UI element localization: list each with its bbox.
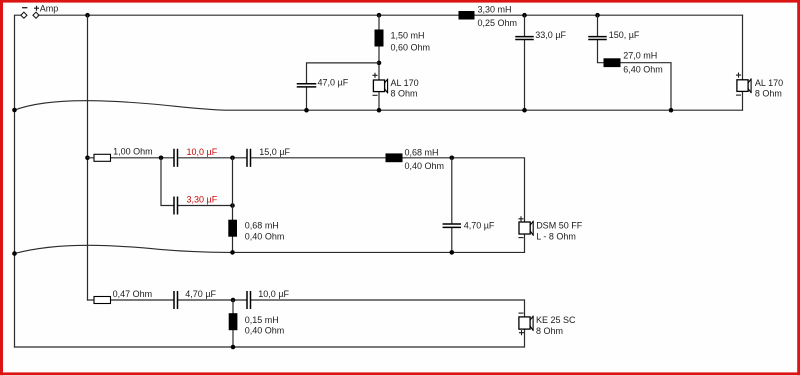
wire: 1.5mH branch vertical — [378, 15, 380, 110]
capacitor C8 4,70 uF — [174, 292, 178, 309]
wire: tweeter main row y=300 — [15, 300, 525, 347]
node: return rail / 47uF — [304, 108, 309, 113]
wire: top rail (+ feed, y=15.2) — [38, 14, 742, 16]
node: return rail / 27mH — [669, 108, 674, 113]
speaker AL 170 (woofer 1) symbol — [373, 80, 384, 92]
svg-text:33,0 µF: 33,0 µF — [535, 30, 566, 40]
node: after R1 — [159, 156, 164, 161]
svg-text:1,00 Ohm: 1,00 Ohm — [113, 147, 153, 157]
capacitor C6 15,0 uF — [247, 150, 251, 167]
wire: 47uF branch horizontal+vertical — [307, 63, 380, 110]
svg-text:DSM 50 FF: DSM 50 FF — [536, 220, 583, 230]
speaker KE 25 SC plus mark — [520, 331, 524, 335]
speaker AL 170 (woofer 2) minus mark — [737, 94, 741, 96]
capacitor C1 47,0 uF — [298, 84, 316, 87]
svg-text:10,0 µF: 10,0 µF — [258, 289, 289, 299]
label minus sign — [23, 7, 27, 9]
inductor L1 1,50 mH — [375, 30, 384, 47]
wire: parallel branch to 3,30uF — [161, 158, 233, 206]
svg-text:1,50 mH: 1,50 mH — [391, 31, 425, 41]
svg-text:4,70 µF: 4,70 µF — [464, 220, 495, 230]
speaker KE 25 SC symbol — [519, 317, 530, 329]
svg-text:L - 8 Ohm: L - 8 Ohm — [536, 231, 576, 241]
terminal minus (diamond) — [21, 12, 27, 18]
node: return rail / AL170 woofer1 — [377, 108, 382, 113]
wire: top rail right end down to woofer 2 — [742, 15, 744, 110]
node: return rail left end — [12, 108, 17, 113]
svg-text:0,15 mH: 0,15 mH — [245, 315, 279, 325]
wire: tweeter shunt inductor branch — [232, 300, 234, 347]
svg-text:0,25 Ohm: 0,25 Ohm — [478, 18, 518, 28]
node: top rail / 1.5mH branch — [377, 13, 382, 18]
svg-text:6,40 Ohm: 6,40 Ohm — [623, 65, 663, 75]
capacitor C5 3,30 uF — [174, 197, 178, 214]
inductor L2 3,30 mH (inline on top rail) — [459, 11, 475, 20]
wire: main feed drop x=87.5 from top rail to low-pass row — [87, 15, 89, 300]
inductor L6 0,15 mH — [229, 313, 238, 330]
wire: 33uF branch vertical — [524, 15, 526, 110]
node: mid return / shunt inductor — [230, 250, 235, 255]
speaker DSM 50 FF symbol — [519, 222, 530, 234]
node: tweeter row / shunt inductor — [231, 298, 236, 303]
resistor R1 1,00 Ohm — [94, 154, 111, 161]
node: junction 47uF branch / speaker — [377, 61, 382, 66]
svg-text:3,30 mH: 3,30 mH — [478, 5, 512, 15]
capacitor C9 10,0 uF — [247, 292, 251, 309]
wire: left return wire (vertical, from minus terminal to bottom-left corner) — [15, 15, 22, 347]
speaker AL 170 (woofer 1) minus mark — [373, 94, 377, 96]
svg-text:0,60 Ohm: 0,60 Ohm — [391, 43, 431, 53]
speaker AL 170 (woofer 2) symbol — [737, 80, 748, 92]
speaker DSM 50 FF minus mark — [519, 237, 523, 239]
svg-text:0,47 Ohm: 0,47 Ohm — [113, 289, 153, 299]
capacitor C7 4,70 uF — [443, 224, 460, 227]
svg-text:10,0 µF: 10,0 µF — [187, 147, 218, 157]
svg-text:150, µF: 150, µF — [609, 30, 640, 40]
node: mid return rail left end — [12, 251, 17, 256]
border frame (red) — [0, 0, 800, 3]
svg-text:0,68 mH: 0,68 mH — [245, 220, 279, 230]
label plus sign — [35, 6, 39, 10]
capacitor C2 33,0 uF — [516, 37, 533, 40]
node: junction top rail / feed drop — [85, 13, 90, 18]
svg-text:8 Ohm: 8 Ohm — [755, 89, 782, 99]
svg-text:Amp: Amp — [40, 4, 59, 14]
terminal plus (diamond) — [33, 12, 39, 18]
svg-text:8 Ohm: 8 Ohm — [536, 326, 563, 336]
svg-text:AL 170: AL 170 — [755, 78, 783, 88]
resistor R2 0,47 Ohm — [94, 297, 111, 304]
node: parallel caps lower junction — [230, 203, 235, 208]
node: midrange row / 4.7uF shunt — [450, 156, 455, 161]
node: top rail / 33uF branch — [522, 13, 527, 18]
wire: top section return rail (slightly wavy) — [15, 101, 743, 111]
svg-text:4,70 µF: 4,70 µF — [185, 289, 216, 299]
speaker AL 170 (woofer 2) plus mark — [737, 73, 741, 77]
svg-text:KE 25 SC: KE 25 SC — [536, 315, 576, 325]
wire: 4.7uF shunt branch — [451, 158, 453, 253]
inductor L5 0,68 mH (series) — [386, 153, 403, 162]
svg-text:0,40 Ohm: 0,40 Ohm — [405, 161, 445, 171]
svg-text:47,0 µF: 47,0 µF — [318, 78, 349, 88]
capacitor C4 10,0 uF — [174, 150, 178, 167]
node: feed drop / midrange row — [85, 156, 90, 161]
svg-text:8 Ohm: 8 Ohm — [391, 89, 418, 99]
svg-text:0,40 Ohm: 0,40 Ohm — [245, 232, 285, 242]
svg-text:15,0 µF: 15,0 µF — [259, 147, 290, 157]
wire: 150uF + 27mH series branch — [598, 15, 672, 110]
speaker DSM 50 FF plus mark — [519, 217, 523, 221]
svg-text:0,40 Ohm: 0,40 Ohm — [245, 326, 285, 336]
wire: shunt inductor branch x=232.5 — [232, 158, 234, 253]
svg-text:0,68 mH: 0,68 mH — [405, 148, 439, 158]
svg-text:3,30 µF: 3,30 µF — [187, 194, 218, 204]
svg-text:27,0 mH: 27,0 mH — [623, 51, 657, 61]
svg-text:AL 170: AL 170 — [391, 78, 419, 88]
node: top rail / 150uF branch — [595, 13, 600, 18]
inductor L4 0,68 mH (shunt) — [228, 220, 237, 237]
capacitor C3 150 uF — [589, 37, 606, 40]
speaker AL 170 (woofer 1) plus mark — [373, 73, 377, 77]
node: return rail / 33uF — [522, 108, 527, 113]
speaker KE 25 SC minus mark — [519, 312, 523, 314]
node: tweeter return / shunt inductor — [231, 345, 236, 350]
inductor L3 27,0 mH — [604, 58, 621, 67]
wire: midrange main row y=157.8 — [88, 158, 525, 253]
wire: midrange return rail (slightly wavy) — [15, 245, 525, 253]
node: midrange row / shunt branch — [230, 156, 235, 161]
node: mid return / 4.7uF — [450, 250, 455, 255]
